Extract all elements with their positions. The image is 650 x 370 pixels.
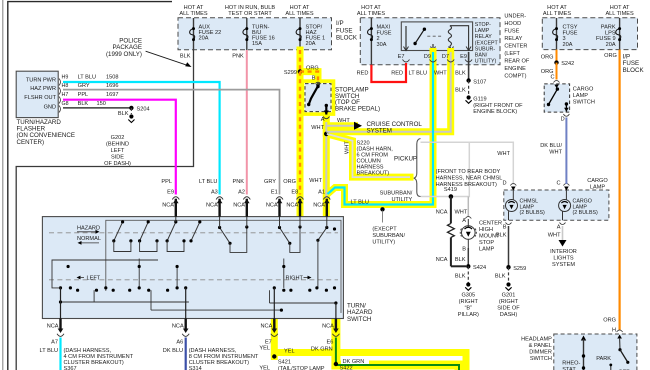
label HOT AT ALL TIMES (maxi fuse) [357,5,386,17]
svg-text:20A: 20A [606,42,616,48]
NCA labels at bottom pins [47,324,334,330]
svg-text:HIGH: HIGH [479,227,493,233]
label CARGO LAMP SWITCH [573,87,595,106]
svg-text:PPL: PPL [161,179,172,185]
svg-text:LEFT: LEFT [87,276,101,282]
svg-text:FLSHR OUT: FLSHR OUT [24,95,56,101]
internal contact dot row (left) [67,265,286,268]
svg-text:BLK: BLK [455,257,466,263]
svg-text:NCA: NCA [436,257,448,263]
svg-text:WHT: WHT [345,141,351,154]
svg-text:DK GRN: DK GRN [343,359,365,365]
turn/hazard flasher box [16,71,58,117]
svg-text:(RIGHT: (RIGHT [459,299,479,305]
svg-text:SYSTEM: SYSTEM [367,128,392,135]
svg-text:RHEO-: RHEO- [562,361,580,367]
internal bus wires [52,260,158,288]
svg-text:20A: 20A [199,36,209,42]
top pin connector arcs [172,197,330,200]
pin A connector arc [323,117,329,119]
top pin black stubs into switch [176,199,327,217]
svg-text:BLK: BLK [455,88,466,94]
wire ORG stop/haz fuse to S299 (dashed orange over yellow) [299,50,301,72]
svg-text:S367: S367 [64,366,77,370]
svg-text:SWITCH: SWITCH [347,316,371,323]
label RHEO-STAT [562,361,580,370]
internal exit wires to bottom pins [60,288,62,319]
svg-text:BLK: BLK [118,111,129,117]
svg-text:RIGHT: RIGHT [286,276,304,282]
svg-text:E7: E7 [265,340,272,346]
fuse MAXI FUSE 2 30A [368,18,392,65]
svg-text:E6: E6 [327,340,334,346]
svg-text:S204: S204 [137,107,150,113]
hazard selector contact 3 (E9 pin) [167,222,176,241]
svg-text:D: D [502,181,506,187]
svg-text:A: A [557,225,561,231]
svg-text:C: C [550,75,554,81]
highlight cruise control branch [326,122,354,129]
splice S259 [506,265,510,269]
outer convenience-center box border [8,2,172,370]
svg-text:NCA: NCA [266,203,278,209]
hazard selector contact 4 [191,222,200,241]
svg-text:S419: S419 [444,187,457,193]
wire BLK S204 to G202 (dashed) [130,108,132,114]
wire ORG S299 down to E8 [299,72,301,195]
cargo lamp assembly box [504,190,609,220]
svg-text:G119: G119 [473,97,486,103]
svg-text:YEL: YEL [284,349,295,355]
svg-text:ALL TIMES: ALL TIMES [357,11,386,17]
stop-lamp relay U1 box [401,22,472,51]
svg-text:DK GRN: DK GRN [311,347,333,353]
svg-text:15A: 15A [252,41,262,47]
top pin arrowheads [173,199,330,203]
svg-text:E1: E1 [271,190,278,196]
top pin labels [167,190,325,196]
off contact stub [610,365,612,370]
svg-text:S299: S299 [284,70,297,76]
svg-text:BLK: BLK [455,274,466,280]
cruise control arrow [354,122,362,130]
svg-text:ORG: ORG [603,318,616,324]
harness route brace [414,139,421,197]
svg-text:(LEFT: (LEFT [504,51,520,57]
left/right dashed position line [49,279,338,281]
svg-text:LT BLU: LT BLU [40,348,58,354]
svg-text:A7: A7 [51,340,58,346]
bulb center high mount stop lamp [460,219,476,248]
wire DK BLU from A6 down off page [185,338,187,370]
svg-text:20A: 20A [306,41,316,47]
svg-text:A3: A3 [211,190,218,196]
svg-text:FUSE: FUSE [504,29,519,35]
splice S242 [554,60,558,64]
highlight S299 branch to stoplamp switch pin B [300,72,318,83]
switch contact at E1 with link to E8 [280,228,290,244]
svg-text:NORMAL: NORMAL [77,236,101,242]
svg-text:TURN PWR: TURN PWR [26,78,56,84]
svg-text:LT BLU: LT BLU [78,74,96,80]
svg-text:STOP: STOP [479,240,494,246]
svg-text:WHT: WHT [455,210,468,216]
label HOT AT ALL TIMES (aux fuse) [179,5,208,17]
label S421 (TAIL/STOP LAMP [278,360,325,370]
fuse AUX FUSE 22 20A [190,18,222,50]
svg-text:UTILITY): UTILITY) [372,240,395,246]
svg-text:A6: A6 [176,340,183,346]
svg-text:20A: 20A [563,42,573,48]
svg-text:LAMP: LAMP [590,185,606,191]
svg-text:G8: G8 [62,101,69,107]
svg-text:1697: 1697 [106,92,118,98]
wire LT BLU 1508 from H9 right then down to A3 [63,82,220,195]
svg-text:LT BLU: LT BLU [351,200,369,206]
yel stub below S421 [271,353,278,361]
label HOT AT ALL TIMES (ctsy fuse) [543,5,572,17]
svg-text:BLK: BLK [78,101,89,107]
svg-text:A1: A1 [318,190,325,196]
svg-text:(2 BULBS): (2 BULBS) [520,210,546,216]
svg-text:NCA: NCA [47,324,59,330]
svg-text:A: A [462,218,466,224]
label STOPLAMP SWITCH (TOP OF BRAKE PEDAL) [335,87,380,113]
callout dot on LT BLU (except suburban/utility) [380,207,384,211]
svg-text:B: B [462,247,466,253]
wire ORG ctsy fuse to S242 [556,50,558,63]
label HOT AT ALL TIMES (park lps fuse) [605,5,634,17]
resistor R1 [448,223,455,237]
wire GRY 1696 from H8 right then down to E1 [63,90,280,195]
label INTERIOR LIGHTS SYSTEM [550,249,577,268]
svg-text:(TAIL/STOP LAMP: (TAIL/STOP LAMP [278,366,325,370]
svg-text:SIDE: SIDE [111,155,124,161]
svg-text:HARNESS, NEAR CHMSL: HARNESS, NEAR CHMSL [436,176,503,182]
relay coil [448,26,451,46]
svg-text:WHT: WHT [549,150,562,156]
svg-text:SUBUR-: SUBUR- [475,46,496,52]
wire BLK S107 to G119 (dashed) [468,81,470,96]
highlight WHT relay D7 wire [326,52,450,132]
wire ORG park lps fuse down to headlamp switch H [618,50,620,331]
wire BLK S424 to G305 (dashed) [467,266,469,282]
svg-text:NCA: NCA [313,203,325,209]
svg-text:1696: 1696 [106,83,118,89]
stoplamp switch box [305,84,331,112]
svg-text:CENTER: CENTER [504,44,527,50]
switch contact at A1 [318,228,327,241]
switch inner housing outline [106,220,341,313]
svg-text:BRAKE PEDAL): BRAKE PEDAL) [335,105,380,112]
label (FRONT TO REAR BODY HARNESS, NEAR CHMSL HARNESS BREAKOUT) S419 [436,169,503,193]
highlight ORG fuse1 to S299 to E8 [297,50,304,220]
svg-text:E9: E9 [167,190,174,196]
fuse CTSY FUSE 3 20A [553,18,578,50]
svg-text:NCA: NCA [260,324,272,330]
splice S421 [272,354,276,358]
wire RED maxi fuse to relay E7 [371,63,406,82]
svg-text:D9: D9 [424,54,431,60]
highlight YEL E7 wire to S421 and right [274,316,466,370]
label HOT AT ALL TIMES (stop/haz fuse) [285,5,314,17]
svg-text:(1999 ONLY): (1999 ONLY) [106,51,142,58]
svg-text:TEST OR START: TEST OR START [228,11,272,17]
svg-text:D: D [561,117,565,123]
svg-text:ALL TIMES: ALL TIMES [179,11,208,17]
contact partner dots and U links (left) [129,239,132,242]
svg-text:C: C [556,181,560,187]
svg-text:ALL TIMES: ALL TIMES [605,11,634,17]
label TURN/HAZARD FLASHER (ON CONVENIENCE CENTER) [17,119,75,146]
svg-text:ENGINE BLOCK): ENGINE BLOCK) [473,109,517,115]
junction dot stoplamp/cruise/relay [324,132,329,137]
ground G305 [466,282,470,286]
switch contact at A3 with link to A2 [220,228,230,244]
label TURN/HAZARD SWITCH [347,303,373,323]
label SUBURBAN/UTILITY (breakout routes) [380,191,413,204]
svg-text:PNK: PNK [232,179,244,185]
wire WHT cruise control branch [326,125,354,127]
stoplamp B entry arrow [316,84,321,88]
cargo lamp switch box [544,84,569,112]
label STOP-LAMP RELAY (EXCEPT SUBURBAN/UTILITY) [475,22,499,65]
police package pointer arrow [146,51,188,65]
relay internal switch contact [405,26,407,51]
svg-text:YEL: YEL [259,366,270,370]
svg-text:G202: G202 [111,135,125,141]
bulb CHMSL lamp (2 bulbs) [506,190,518,220]
svg-text:UTILITY: UTILITY [391,197,412,203]
fuse TURN-B/U FUSE 16 15A [243,18,275,50]
svg-text:NCA: NCA [286,203,298,209]
highlight DK GRN E6 wire to S422 and right [336,316,459,370]
fuse STOP/HAZ FUSE 1 20A [296,18,325,50]
svg-text:E8: E8 [291,190,298,196]
label CHMSL LAMP (2 BULBS) [520,199,546,217]
highlight outline of stoplamp switch box [303,81,334,114]
chmsl lamp leg (WHT) [467,197,469,218]
svg-text:B: B [312,76,316,82]
svg-text:ENGINE: ENGINE [504,66,526,72]
svg-text:SWITCH: SWITCH [573,100,595,106]
relay pin arrows into box bottom [404,47,409,51]
svg-text:OF DASH): OF DASH) [104,161,131,167]
turn/hazard switch box [42,217,343,319]
svg-text:GND: GND [44,105,56,111]
svg-text:30A: 30A [377,42,387,48]
svg-text:BLOCK: BLOCK [623,67,645,74]
internal wire verticals [138,259,140,288]
svg-text:DASH): DASH) [500,312,518,318]
svg-text:HEADLAMP: HEADLAMP [521,337,552,343]
svg-text:REAR OF: REAR OF [504,59,529,65]
bulb CARGO lamp (2 bulbs) [559,190,571,220]
wire color labels above switch [161,178,322,185]
I/P fuse block box (left, dashed) [178,18,332,50]
svg-text:(RIGHT FRONT OF: (RIGHT FRONT OF [473,103,523,109]
bottom pin labels [51,340,333,346]
svg-text:PNK: PNK [232,54,244,60]
label HOT IN RUN BULB TEST OR START [225,5,276,17]
svg-text:WHT: WHT [309,178,322,184]
splice S422 [334,362,338,366]
svg-text:NCA: NCA [162,203,174,209]
svg-text:DK BLU/: DK BLU/ [540,143,562,149]
label I/P FUSE BLOCK (right block) [623,54,645,74]
svg-text:ORG: ORG [541,55,554,61]
svg-text:H: H [612,328,616,334]
svg-text:HAZ PWR: HAZ PWR [30,86,56,92]
wire BLK S259 to G201 (dashed) [508,267,510,282]
svg-text:UNDER-: UNDER- [504,14,526,20]
svg-text:SIDE OF: SIDE OF [497,306,520,312]
svg-text:WHT: WHT [548,233,561,239]
svg-text:S259: S259 [513,266,526,272]
svg-text:ALL TIMES: ALL TIMES [543,11,572,17]
svg-text:PILLAR): PILLAR) [458,312,479,318]
wire ORG S299 to stoplamp B [300,72,318,81]
label CENTER HIGH MOUNT STOP LAMP [479,221,502,253]
fuse PARK LPS FUSE 9 20A [596,18,621,50]
bottom pin stubs with arrows and arcs [61,319,336,332]
ground G201 [506,282,510,286]
splice S419 [449,194,454,199]
svg-text:BLK: BLK [495,274,506,280]
label DK GRN on white patch [341,357,369,365]
relay pin connector arcs [403,60,473,63]
svg-text:BLK: BLK [180,54,191,60]
svg-text:RED: RED [357,71,369,77]
svg-text:(2 BULBS): (2 BULBS) [573,210,599,216]
interior lights system arrow [559,240,567,247]
svg-text:NCA: NCA [322,324,334,330]
wire WHT harness brace top route to cargo box D [421,142,514,184]
label S220 (DASH HARN, 6 CM FROM COLUMN HARNESS BREAKOUT) [357,141,394,177]
svg-text:S107: S107 [473,80,486,86]
highlight LT BLU relay D9 wire [328,52,434,205]
svg-text:BLOCK: BLOCK [336,35,358,42]
svg-text:S242: S242 [561,61,574,67]
stoplamp switch lever [309,86,318,105]
svg-text:SUBURBAN/: SUBURBAN/ [380,191,413,197]
highlight WHT A1 stub [323,198,330,220]
svg-text:1508: 1508 [106,74,118,80]
svg-text:GRY: GRY [78,83,90,89]
label UNDER-HOOD FUSE RELAY CENTER (LEFT REAR OF ENGINE COMPT) [504,14,529,80]
label DK BLU/WHT [540,143,562,156]
svg-text:CARGO: CARGO [573,87,594,93]
page edge line [2,0,4,370]
svg-text:G305: G305 [461,293,475,299]
svg-text:LT BLU: LT BLU [199,179,217,185]
svg-text:B: B [503,225,507,231]
svg-text:E9: E9 [460,54,467,60]
label CARGO LAMP (box title) [587,178,608,191]
wire DK GRN from E6 to S422 and off right [336,338,459,370]
svg-text:& PANEL: & PANEL [529,343,552,349]
highlight S220 breakout path [327,134,410,177]
wire ORG S242 to cargo switch C [556,63,558,80]
highlight stoplamp pin A to junction [323,112,330,198]
wire BLK chmsl B to S424 [467,248,469,266]
underhood fuse relay center box (dashed) [360,18,500,65]
svg-text:PARK: PARK [596,356,611,362]
svg-text:BREAKOUT): BREAKOUT) [357,171,390,177]
svg-text:BAN/: BAN/ [475,53,488,59]
svg-text:NCA: NCA [172,324,184,330]
svg-text:WHT: WHT [337,118,350,124]
wire BLK 150 from G8 to S204 [63,107,131,109]
wire WHT S220 breakout path [327,134,410,177]
svg-text:E7: E7 [398,54,405,60]
svg-text:(RIGHT: (RIGHT [499,299,519,305]
hazard selector contact 1 [114,222,123,241]
wire BLK relay E9 to S107 [468,52,470,81]
label HEADLAMP & PANEL DIMMER SWITCH [521,337,552,363]
label I/P FUSE BLOCK (left block) [336,20,358,42]
svg-text:LAMP: LAMP [475,28,490,34]
label CARGO LAMP (2 BULBS) [573,199,599,217]
svg-text:H9: H9 [62,74,69,80]
svg-text:D7: D7 [442,54,449,60]
label LEFT with left arrow [77,276,81,280]
svg-text:(EXCEPT: (EXCEPT [475,40,499,46]
svg-text:CARGO: CARGO [587,178,608,184]
svg-text:A2: A2 [238,190,245,196]
svg-text:SYSTEM: SYSTEM [552,262,575,268]
svg-text:H7: H7 [62,92,69,98]
splice S204 [129,106,133,110]
police package wire BLK from aux fuse, down then left then down off page [16,50,193,370]
svg-text:NCA: NCA [436,210,448,216]
svg-text:LAMP: LAMP [479,247,495,253]
svg-text:HOOD: HOOD [504,21,521,27]
svg-text:WHT: WHT [497,151,510,157]
svg-text:COMPT): COMPT) [504,74,526,80]
svg-text:LT BLU: LT BLU [409,71,427,77]
headlamp & panel dimmer switch box [554,334,637,370]
rheostat riser with arrow [581,336,586,341]
svg-text:NCA: NCA [233,203,245,209]
svg-text:INTERIOR: INTERIOR [550,249,577,255]
internal pin risers from top pins [176,217,327,228]
wire PPL 1697 from H7 right then down to E9 [63,100,176,195]
splice S424 [466,264,470,268]
svg-text:G201: G201 [502,293,516,299]
wire LT BLU from A7 down off page [59,338,61,370]
svg-text:(BEHIND: (BEHIND [106,142,129,148]
svg-text:ALL TIMES: ALL TIMES [285,11,314,17]
cargo switch internal contacts [554,85,559,89]
svg-text:PICKUP: PICKUP [394,156,417,163]
label DASH HARNESS 4CM S367 [64,348,134,370]
wire PNK from turn-b/u fuse down to A2 [246,50,248,195]
hazard selector contact 2 [140,222,149,241]
svg-text:DK BLU: DK BLU [163,348,183,354]
svg-text:SWITCH: SWITCH [530,356,552,362]
label POLICE PACKAGE (1999 ONLY) [106,38,142,58]
svg-text:S314: S314 [189,366,202,370]
svg-text:S424: S424 [473,265,486,271]
wire BLK cargo B to S259 [508,226,510,267]
svg-text:RELAY: RELAY [475,34,492,40]
internal riser from A1 contact down to right cluster [317,240,319,288]
svg-text:CENTER: CENTER [479,221,502,227]
svg-text:RED: RED [391,71,403,77]
svg-text:LEFT: LEFT [111,148,125,154]
headlamp switch park/off lever [620,350,627,362]
